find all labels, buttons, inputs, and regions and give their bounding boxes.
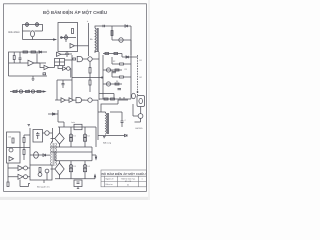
resistor R29 xyxy=(43,73,46,75)
wire xyxy=(13,52,15,63)
wire xyxy=(75,45,89,47)
transistor Q7 xyxy=(138,114,143,119)
wire xyxy=(140,107,142,114)
wire xyxy=(34,62,46,64)
svg-text:D3: D3 xyxy=(74,166,76,168)
wire xyxy=(112,25,125,27)
wire xyxy=(44,173,47,183)
source B3 xyxy=(31,31,35,37)
diode X1 xyxy=(69,134,72,137)
resistor R26 xyxy=(105,53,109,55)
page background xyxy=(0,0,150,200)
diode D5 xyxy=(125,134,128,136)
wire xyxy=(112,70,131,77)
arrow B1 xyxy=(26,22,28,27)
wire xyxy=(112,39,131,41)
resistor R17 xyxy=(89,80,91,85)
wire hook xyxy=(94,176,96,179)
bridge BR2 xyxy=(55,163,64,175)
junction plus xyxy=(101,76,103,78)
arrow chain xyxy=(43,91,45,92)
svg-text:Bộ nguồn 1C: Bộ nguồn 1C xyxy=(37,185,50,188)
svg-text:D4: D4 xyxy=(88,166,90,168)
wire xyxy=(8,176,30,178)
capacitor C2 xyxy=(65,51,69,57)
resistor R2 xyxy=(31,51,36,53)
wire xyxy=(36,52,38,63)
wire joins xyxy=(65,60,73,78)
wire xyxy=(133,104,141,122)
svg-text:B1: B1 xyxy=(140,60,142,62)
titleblock frame xyxy=(101,170,146,187)
wire loop K xyxy=(137,96,145,107)
titleblock row line xyxy=(101,180,146,182)
resistor R11 xyxy=(115,69,119,71)
diode X3 xyxy=(69,165,72,168)
wire rail x131 xyxy=(130,40,132,99)
resistor R15 xyxy=(111,98,115,100)
wire xyxy=(34,63,44,68)
svg-text:Kiểm tra: Kiểm tra xyxy=(106,183,114,186)
winding T1 xyxy=(95,28,96,50)
op-amp U9 xyxy=(18,166,23,171)
diode D11 xyxy=(53,113,55,115)
diode X4 box xyxy=(83,168,86,172)
ground G1 xyxy=(32,76,35,80)
resistor R9 xyxy=(111,31,113,36)
label K plus xyxy=(137,91,139,93)
wire row4 xyxy=(99,94,131,100)
source B1 xyxy=(25,23,28,26)
svg-text:BỘ BĂM ĐIỆN ÁP MỘT CHIỀU: BỘ BĂM ĐIỆN ÁP MỘT CHIỀU xyxy=(101,171,146,176)
wire row2 xyxy=(103,69,122,71)
resistor R20 xyxy=(23,150,25,155)
wire rails xyxy=(99,52,103,100)
source B4 xyxy=(19,90,22,93)
titleblock header line xyxy=(101,175,146,177)
transistor Q13 xyxy=(88,98,92,102)
winding T3a xyxy=(50,143,51,165)
diode D3 xyxy=(125,25,128,27)
svg-text:B2: B2 xyxy=(140,77,142,79)
wire verticals upper xyxy=(60,127,97,147)
transistor Q2 xyxy=(106,68,110,72)
core T1 xyxy=(97,28,98,51)
source B6 xyxy=(64,36,68,40)
resistor R1 xyxy=(23,51,28,53)
wire box I xyxy=(7,132,21,163)
resistor R8 xyxy=(72,29,74,34)
wire xyxy=(8,163,30,182)
zener chain xyxy=(137,55,139,95)
capacitor C8 xyxy=(118,89,122,90)
svg-text:Thiết kế môn học: Thiết kế môn học xyxy=(121,177,136,180)
svg-text:R3: R3 xyxy=(125,69,127,71)
diode D2 xyxy=(61,37,63,39)
wire xyxy=(30,154,43,156)
page frame xyxy=(4,4,147,192)
wire box B xyxy=(9,52,48,76)
titleblock cols xyxy=(105,176,139,187)
svg-text:Lưới: Lưới xyxy=(71,122,75,124)
resistor R14 xyxy=(104,98,108,100)
wire xyxy=(58,66,63,69)
transistor Q16 xyxy=(67,67,71,71)
wire box M xyxy=(33,130,43,143)
svg-text:1: 1 xyxy=(141,179,142,181)
wire xyxy=(51,139,60,148)
resistor R19 xyxy=(23,138,25,143)
resistor R12 xyxy=(120,76,124,78)
wire xyxy=(49,66,55,68)
wire xyxy=(60,34,76,42)
resistor R24 xyxy=(39,168,41,173)
op-amp U3 xyxy=(70,44,75,49)
wire xyxy=(58,110,64,127)
wire loop A xyxy=(23,25,43,32)
wire xyxy=(23,31,43,40)
wire xyxy=(120,97,124,99)
source B2 xyxy=(35,23,38,26)
diode D1 xyxy=(39,51,42,53)
svg-text:R2: R2 xyxy=(113,61,115,63)
wire xyxy=(52,142,53,143)
wire rail xyxy=(7,147,31,149)
diode X3 box xyxy=(69,168,72,172)
svg-text:D2: D2 xyxy=(88,136,90,138)
resistor R6 xyxy=(26,91,30,93)
wire box bottom xyxy=(55,147,92,161)
resistor R7 xyxy=(37,91,41,93)
capacitor C1 xyxy=(19,52,22,63)
winding T3b xyxy=(56,143,57,165)
svg-text:Ud: Ud xyxy=(8,137,11,139)
wire xyxy=(111,26,113,40)
wire row3 xyxy=(103,83,122,85)
gate U13 xyxy=(76,98,82,103)
transistor Q15 xyxy=(45,169,49,173)
resistor R21 xyxy=(7,182,9,187)
svg-text:ĐT–CS: ĐT–CS xyxy=(125,181,132,183)
svg-text:GM RG: GM RG xyxy=(135,128,143,130)
core T3 xyxy=(53,143,54,166)
op-amp U8 xyxy=(9,157,14,162)
gate U5 xyxy=(77,56,82,61)
transistor Q1 xyxy=(119,38,123,42)
wire xyxy=(51,169,60,179)
wire rail A out xyxy=(23,39,56,41)
wire bottom rail xyxy=(55,178,95,180)
wire xyxy=(83,59,100,68)
svg-text:BỘ BĂM ĐIỆN ÁP MỘT CHIỀU: BỘ BĂM ĐIỆN ÁP MỘT CHIỀU xyxy=(43,8,107,15)
op-amp U10 xyxy=(18,174,23,179)
diode X1 box xyxy=(69,138,72,142)
wire rail xyxy=(71,55,73,100)
wire xyxy=(89,85,91,92)
winding T2 xyxy=(106,113,107,134)
wire xyxy=(95,26,112,53)
core T2 xyxy=(108,113,109,134)
scan edge shade right xyxy=(148,0,150,200)
thyristor V1 xyxy=(139,98,143,103)
wire + rail xyxy=(88,23,90,56)
transistor Q8 xyxy=(9,148,13,152)
resistor R25 xyxy=(73,58,76,60)
op-amp U4 xyxy=(57,52,62,56)
resistor R5 xyxy=(13,91,17,93)
wire mid rail xyxy=(72,77,103,79)
wire xyxy=(48,113,58,115)
capacitor C5 xyxy=(36,132,40,139)
resistor R16 xyxy=(89,68,91,74)
scan edge shade bottom xyxy=(0,197,150,200)
wire xyxy=(89,73,91,80)
wire xyxy=(98,112,125,136)
diode D4 xyxy=(126,56,128,58)
wire verticals lower xyxy=(60,161,86,179)
wire xyxy=(46,154,50,156)
op-amp U11 xyxy=(61,98,66,103)
arrow out xyxy=(95,157,96,159)
capacitor C9 xyxy=(62,80,65,88)
wire xyxy=(74,99,86,101)
svg-text:Điều khiển: Điều khiển xyxy=(9,31,21,34)
op-amp U1 xyxy=(28,60,34,66)
svg-text:BA xung: BA xung xyxy=(103,142,112,145)
source B7 xyxy=(45,131,49,135)
ground G3 xyxy=(103,137,106,138)
source B5 xyxy=(31,90,34,93)
transistor Q3 xyxy=(106,82,110,86)
wire xyxy=(24,128,30,165)
svg-text:R4: R4 xyxy=(116,81,118,83)
transistor Q4 xyxy=(132,93,136,98)
op-amp U2 xyxy=(44,65,49,69)
wire out stub xyxy=(92,155,96,158)
resistor R28 xyxy=(13,56,15,60)
diode X2 box xyxy=(83,138,86,142)
wire left xyxy=(97,112,99,140)
wire box D xyxy=(58,23,78,52)
wire L bottom xyxy=(20,180,30,187)
resistor R18 xyxy=(12,138,14,143)
transistor Q14 xyxy=(38,173,42,177)
wire cross xyxy=(57,79,72,81)
arrow A out xyxy=(54,39,56,40)
wire xyxy=(22,31,24,40)
wire top rail xyxy=(58,126,96,128)
transistor Q10 xyxy=(24,175,28,179)
cap C6 sym xyxy=(77,182,80,184)
wire step xyxy=(101,100,128,112)
capacitor C3 xyxy=(103,25,104,27)
resistor R10 xyxy=(120,63,124,65)
wire xyxy=(43,128,53,142)
ground G4 xyxy=(77,187,79,189)
transistor Q5 xyxy=(88,57,92,61)
wire t1 join xyxy=(95,51,99,52)
wire xyxy=(106,112,123,117)
bridge BR1 xyxy=(55,133,64,144)
diode D6 xyxy=(43,154,46,157)
wire rail1 xyxy=(51,146,93,148)
wire xyxy=(82,100,98,112)
wire mid rail xyxy=(9,62,29,64)
op-amp U12 xyxy=(69,98,74,103)
arrow hook xyxy=(94,175,95,177)
transistor Q9 xyxy=(24,166,28,170)
resistor divider xyxy=(55,59,65,66)
fuse F1 xyxy=(74,124,82,129)
wire chain xyxy=(10,91,44,93)
resistor block R3 R4 xyxy=(55,59,65,66)
svg-text:01: 01 xyxy=(127,185,129,187)
resistor R27 xyxy=(114,53,118,55)
capacitor box C6 xyxy=(74,180,82,187)
resistor R13 xyxy=(115,83,119,85)
svg-text:Người vẽ: Người vẽ xyxy=(106,178,114,181)
wire xyxy=(66,99,70,101)
wire row100 xyxy=(55,99,61,101)
ground G2 xyxy=(28,125,31,126)
diode X4 xyxy=(83,165,86,168)
wire xyxy=(112,57,131,64)
capacitor C4 xyxy=(121,117,124,127)
wire box N xyxy=(30,165,52,180)
wire row1 xyxy=(103,54,138,58)
meter M1 xyxy=(34,152,39,158)
wire xyxy=(128,26,131,55)
wire xyxy=(61,53,72,55)
svg-text:D1: D1 xyxy=(74,136,76,138)
stub S1 xyxy=(17,90,29,92)
op-amp U2b xyxy=(63,67,67,71)
wire stub xyxy=(56,80,58,100)
capacitor C7 xyxy=(113,72,117,73)
diode X2 xyxy=(83,134,86,137)
wire rail2 xyxy=(51,151,93,153)
arrow B2 xyxy=(36,22,38,27)
